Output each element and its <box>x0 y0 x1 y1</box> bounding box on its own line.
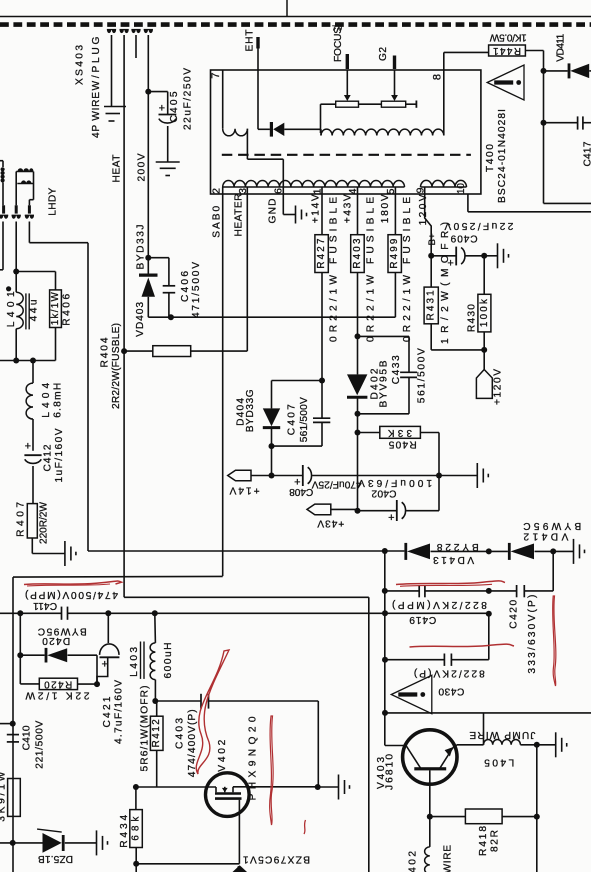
svg-text:474/500V(MPP): 474/500V(MPP) <box>25 589 118 600</box>
diode VD411 <box>568 63 571 78</box>
wire pin8 <box>443 52 445 135</box>
resistor R404 <box>153 346 191 357</box>
svg-text:R405: R405 <box>388 439 416 450</box>
svg-text:82R: 82R <box>490 830 501 852</box>
svg-text:7: 7 <box>210 72 222 78</box>
node B+ C409 <box>428 253 434 259</box>
svg-text:68k: 68k <box>131 817 142 841</box>
svg-text:120V: 120V <box>418 194 429 225</box>
node L405 right <box>534 742 540 748</box>
resistor R407 <box>27 504 37 538</box>
resistor R434 <box>135 787 137 810</box>
potentiometer FOCUS <box>346 70 348 95</box>
node bus x488 <box>486 611 492 617</box>
wire V402 source <box>238 800 240 864</box>
svg-text:BSC24-01N4028I: BSC24-01N4028I <box>497 109 508 203</box>
wire EHT <box>257 49 259 130</box>
connector pin left 1 <box>0 215 3 219</box>
svg-text:0R22/1W FUSIBLE: 0R22/1W FUSIBLE <box>402 197 413 342</box>
wire VD411 node down <box>543 123 545 204</box>
wire section top edge <box>13 575 223 578</box>
resistor R403 <box>351 235 365 273</box>
node V403 feed <box>382 710 388 716</box>
bus 613 left <box>0 612 62 614</box>
node bus D420 <box>17 610 23 616</box>
node row x488 <box>486 548 492 554</box>
inductor L404 <box>32 361 34 384</box>
diode VD412 <box>489 550 508 552</box>
svg-text:FOCUS: FOCUS <box>333 27 344 62</box>
node R418 right <box>534 814 540 820</box>
wire x385 down <box>384 551 386 591</box>
node C406 bottom <box>168 314 174 320</box>
node row x385 <box>382 548 388 554</box>
page border tick <box>286 0 288 17</box>
pin 5 wire <box>394 187 396 235</box>
node D404 bottom <box>269 443 275 449</box>
G2 terminal <box>393 56 396 70</box>
resistor R499 <box>388 235 401 273</box>
svg-text:44u: 44u <box>28 299 39 321</box>
inductor left choke <box>1 167 5 171</box>
capacitor C408 <box>272 475 303 477</box>
capacitor C411 <box>61 607 63 620</box>
page border dashed line <box>0 22 591 27</box>
connector pin left 3 <box>25 215 29 219</box>
diode D420 <box>20 654 44 656</box>
node gate line left <box>133 784 139 790</box>
node C405 tap <box>145 89 151 95</box>
wire R420 right <box>78 683 98 685</box>
phase dot L401 <box>6 286 11 291</box>
safety triangle T400 <box>487 65 524 100</box>
node D402 top <box>355 333 361 339</box>
ground C405 <box>156 161 180 163</box>
svg-text:220R/2W: 220R/2W <box>38 502 49 544</box>
svg-text:R412: R412 <box>151 719 162 747</box>
wire VD411 to C417 <box>543 71 545 123</box>
wire D404 top <box>272 380 323 382</box>
ground V402 <box>318 786 339 788</box>
svg-text:6.8mH: 6.8mH <box>53 383 64 418</box>
red scribble C420 <box>553 596 556 686</box>
wire 713 drop <box>483 713 485 745</box>
resistor R405 <box>358 432 380 434</box>
svg-text:180V: 180V <box>380 194 391 223</box>
svg-text:BYD33J: BYD33J <box>136 225 147 270</box>
svg-text:6: 6 <box>273 188 285 194</box>
wire x385 mid <box>384 591 386 746</box>
node bus C421 <box>105 610 111 616</box>
red tick bottom <box>304 820 306 834</box>
wire L401 bottom rail <box>0 360 56 362</box>
wire 180V rail <box>148 316 395 318</box>
svg-text:+43V: +43V <box>343 194 354 223</box>
diode EHT <box>270 122 273 137</box>
wire plug pin3 stub <box>135 35 137 58</box>
svg-text:600uH: 600uH <box>163 643 174 679</box>
svg-text:C409: C409 <box>450 232 477 243</box>
resistor R412 <box>150 716 163 750</box>
svg-text:C412: C412 <box>43 444 54 471</box>
wire V403 base <box>429 770 431 816</box>
diode D404 <box>271 381 273 409</box>
capacitor C419 <box>385 590 419 592</box>
svg-text:+: + <box>388 512 394 524</box>
red scribble V402 <box>270 716 273 825</box>
transformer T400 box <box>211 70 481 194</box>
svg-text:BZX79C5V1: BZX79C5V1 <box>243 853 310 864</box>
wire plug pin1 <box>111 35 113 107</box>
winding T400 EHT secondary <box>320 129 322 135</box>
node VD411 <box>541 68 547 74</box>
svg-text:L402: L402 <box>408 851 419 872</box>
node L404 top <box>30 358 36 364</box>
resistor R406 <box>50 290 62 328</box>
ground DZ5.1B <box>96 830 98 855</box>
node R405 tap <box>355 430 361 436</box>
plug polarity bar <box>104 106 126 108</box>
ground C409 <box>484 255 497 257</box>
wire R406 top <box>16 271 55 273</box>
svg-text:JUMP WIRE: JUMP WIRE <box>442 845 453 872</box>
inductor L402 <box>429 817 431 847</box>
svg-text:R430: R430 <box>467 304 478 332</box>
capacitor C405 <box>148 91 167 93</box>
svg-text:0R22/1W FUSIBLE: 0R22/1W FUSIBLE <box>328 197 339 342</box>
wire pin3 jog <box>28 222 30 243</box>
svg-text:+: + <box>25 441 31 453</box>
wire to VD411 <box>544 70 568 72</box>
node C410 top <box>10 721 16 727</box>
svg-text:LHDY: LHDY <box>48 187 59 215</box>
wire left pin down <box>2 222 4 270</box>
svg-text:4.7uF/160V: 4.7uF/160V <box>113 680 124 744</box>
connector XS403 pin 3 <box>131 30 135 34</box>
diode VD403 <box>139 274 158 277</box>
ground L405 <box>537 744 556 746</box>
wire pin4 to C402 <box>357 414 359 511</box>
svg-text:470uF/25V: 470uF/25V <box>311 479 361 490</box>
node C403 bottom <box>315 784 321 790</box>
flag +120V <box>483 350 485 370</box>
red scribble C403 <box>196 650 229 774</box>
svg-text:HEATER: HEATER <box>234 194 245 237</box>
node L401 top <box>13 269 19 275</box>
wire D404 to bus <box>271 446 273 475</box>
capacitor C417 <box>544 122 578 124</box>
left pin stub 1 <box>2 205 5 213</box>
potentiometer G2 <box>394 70 396 95</box>
left pin stub 3 <box>28 205 31 213</box>
svg-text:C410: C410 <box>22 725 33 750</box>
winding T400 primary <box>222 70 224 129</box>
connector XS403 pin 4 <box>144 30 148 34</box>
wire gate line <box>136 786 216 788</box>
svg-text:100uF/63V: 100uF/63V <box>358 477 432 488</box>
svg-text:10: 10 <box>456 183 467 194</box>
wire pin5 down <box>394 273 396 318</box>
wire section left edge <box>12 577 14 872</box>
node DZ anode <box>10 840 16 846</box>
resistor R431 <box>430 256 432 287</box>
node L401 bottom <box>13 358 19 364</box>
node VD403 top <box>145 255 151 261</box>
wire 200V vertical <box>147 35 149 274</box>
ground R407 <box>64 541 66 566</box>
node L403 bottom <box>152 698 158 704</box>
capacitor C407 <box>321 381 323 419</box>
wire R404 right <box>191 350 248 352</box>
capacitor C420 <box>489 590 517 592</box>
safety triangle C430 <box>391 675 432 713</box>
svg-text:8: 8 <box>432 74 444 80</box>
svg-text:GND: GND <box>268 199 279 224</box>
resistor R427 <box>315 235 328 273</box>
resistor R418 <box>430 816 466 818</box>
pin 10 wire <box>467 194 469 212</box>
svg-text:DZ5.1B: DZ5.1B <box>38 853 73 864</box>
pin 6 wire <box>282 187 284 215</box>
wire pin2 to L401 <box>15 222 17 272</box>
svg-text:4: 4 <box>347 188 359 194</box>
svg-text:221/500V: 221/500V <box>34 720 45 768</box>
node +14V bus <box>269 473 275 479</box>
winding T400 secondary row B <box>421 186 467 188</box>
left pin stub 2 <box>15 205 18 213</box>
wire pin4 down <box>357 273 359 337</box>
FOCUS terminal <box>346 54 349 69</box>
wire pin1 down <box>321 273 323 381</box>
ground -B row <box>573 539 575 564</box>
svg-text:1K/0.5W: 1K/0.5W <box>489 31 526 42</box>
svg-text:EHT: EHT <box>245 30 256 52</box>
connector XS403 pin 2 <box>120 30 124 34</box>
wire D420 left <box>19 613 21 684</box>
svg-text:333/630V(P): 333/630V(P) <box>527 595 538 674</box>
svg-text:22uF/250V: 22uF/250V <box>183 68 194 130</box>
svg-text:C419: C419 <box>409 614 436 625</box>
wire primary to gnd tap <box>246 129 248 160</box>
node base R418 <box>427 814 433 820</box>
node C402 bus <box>436 473 442 479</box>
connector pin left 2 <box>12 215 16 219</box>
svg-text:HEAT: HEAT <box>112 155 123 183</box>
svg-text:T400: T400 <box>485 144 496 172</box>
svg-text:822/2KV(P): 822/2KV(P) <box>414 667 485 678</box>
svg-text:22K 1/2W: 22K 1/2W <box>25 690 89 701</box>
wire -B row <box>88 550 404 552</box>
resistor R430 <box>483 256 485 294</box>
svg-text:G2: G2 <box>378 47 389 61</box>
inductor L405 jump wire <box>484 739 521 744</box>
winding T400 secondary row A <box>223 186 405 188</box>
node R430 bottom <box>481 347 487 353</box>
capacitor C409 <box>431 255 456 257</box>
pin 1 wire <box>321 187 323 235</box>
wire drain line <box>249 786 318 788</box>
page border solid line <box>0 16 591 18</box>
wire HEAT bottom horizontal <box>124 596 369 598</box>
svg-text:3: 3 <box>237 188 249 194</box>
inductor L401 <box>15 272 17 293</box>
svg-text:XS403: XS403 <box>75 45 86 85</box>
svg-text:4P WIRE: 4P WIRE <box>91 92 102 138</box>
svg-text:+43V: +43V <box>317 517 344 528</box>
svg-text:+: + <box>159 103 165 115</box>
ground GND pin6 <box>295 206 297 224</box>
node R404 left <box>121 348 127 354</box>
wire R404 left <box>124 350 153 352</box>
node row x553 <box>550 548 556 554</box>
bus 613 main <box>68 612 490 614</box>
resistor R420 <box>39 678 77 689</box>
red strike 474/500V <box>24 581 122 585</box>
pin 9 wire <box>425 187 432 256</box>
node R420 right <box>94 681 100 687</box>
node C409 right <box>481 253 487 259</box>
svg-text:BYW95C: BYW95C <box>38 625 87 636</box>
wire collector to L405 <box>457 744 484 746</box>
svg-text:VD411: VD411 <box>555 33 566 61</box>
capacitor C430 <box>385 659 444 661</box>
node D404 top <box>319 378 325 384</box>
svg-text:D420: D420 <box>42 635 70 646</box>
capacitor C433 <box>358 335 410 337</box>
capacitor C410 <box>7 734 19 736</box>
node C417 <box>541 120 547 126</box>
svg-text:1k/1W: 1k/1W <box>50 291 61 325</box>
T400 isolation dashed line <box>222 154 471 156</box>
svg-text:9: 9 <box>415 187 427 193</box>
node R434 bottom <box>133 861 139 867</box>
capacitor C421 <box>107 613 109 643</box>
capacitor C406 <box>148 257 169 259</box>
wire C410 branch <box>0 723 13 725</box>
svg-text:C417: C417 <box>583 141 591 166</box>
svg-text:VD412: VD412 <box>523 530 568 541</box>
svg-text:+14V: +14V <box>311 194 322 223</box>
node bus x385 <box>382 610 388 616</box>
capacitor C412 <box>24 454 41 456</box>
wire R441 right <box>525 50 543 52</box>
pin 2 wire <box>222 187 224 576</box>
svg-text:B+: B+ <box>427 233 438 245</box>
transistor V403 <box>403 730 457 784</box>
svg-text:C411: C411 <box>33 600 57 611</box>
svg-text:VD403: VD403 <box>135 302 146 337</box>
wire DZ left <box>0 842 43 844</box>
diode DZ5.1B zener <box>43 833 62 853</box>
node C430 left <box>382 657 388 663</box>
svg-text:2R2/2W(FUSBLE): 2R2/2W(FUSBLE) <box>111 323 122 409</box>
svg-text:+14V: +14V <box>229 485 259 496</box>
svg-text:C430: C430 <box>438 686 464 697</box>
wire L405 node down <box>536 745 538 872</box>
svg-text:22uF/250V: 22uF/250V <box>444 220 513 231</box>
node +43V <box>355 508 361 514</box>
svg-text:C408: C408 <box>289 486 313 497</box>
svg-text:0R22/1W FUSIBLE: 0R22/1W FUSIBLE <box>365 197 376 342</box>
flag +43V <box>307 504 331 515</box>
svg-text:C402: C402 <box>371 488 396 499</box>
svg-text:R441: R441 <box>493 45 521 56</box>
EHT terminal <box>256 37 259 49</box>
svg-text:BYD33G: BYD33G <box>245 389 256 432</box>
connector XS403 pin 1 <box>107 30 111 34</box>
wire 713 line <box>385 712 591 714</box>
svg-text:1: 1 <box>312 188 324 194</box>
red strike 822/2KV(P) <box>410 644 515 647</box>
node D402 bottom <box>355 411 361 417</box>
svg-text:VD413: VD413 <box>433 554 474 565</box>
svg-text:2: 2 <box>211 188 223 194</box>
ground +14V bus <box>439 475 477 477</box>
node D420 left <box>17 652 23 658</box>
transformer LHDY <box>15 172 17 206</box>
inductor L403 <box>154 613 157 643</box>
diode VD413 <box>404 543 407 560</box>
svg-text:5: 5 <box>385 188 397 194</box>
svg-text:BY228: BY228 <box>436 541 478 552</box>
flag +14V <box>228 470 251 481</box>
node bus L403 <box>152 610 158 616</box>
svg-text:561/500V: 561/500V <box>299 397 310 442</box>
wire HEAT drop right <box>368 597 370 872</box>
mosfet V402 <box>206 773 250 817</box>
red strike 822/2KV(MPP) <box>396 581 505 585</box>
diode D402 <box>357 336 359 374</box>
svg-text:JUMP WIRE: JUMP WIRE <box>469 729 535 740</box>
svg-text:200V: 200V <box>137 153 148 181</box>
capacitor C402 <box>358 510 397 512</box>
node C419 left <box>382 588 388 594</box>
diode BZX79C5V1 partial <box>238 867 245 872</box>
pin 4 wire <box>357 187 359 235</box>
resistor 3K9/1W <box>8 779 21 817</box>
capacitor C403 <box>155 700 201 702</box>
svg-text:33K: 33K <box>388 427 412 438</box>
wire HEAT vertical <box>123 35 125 597</box>
svg-text:W/PLUG: W/PLUG <box>91 36 102 90</box>
svg-text:+120V: +120V <box>493 369 504 405</box>
resistor R441 <box>489 45 526 56</box>
node C419 right <box>486 588 492 594</box>
wire left edge entry <box>0 160 3 162</box>
